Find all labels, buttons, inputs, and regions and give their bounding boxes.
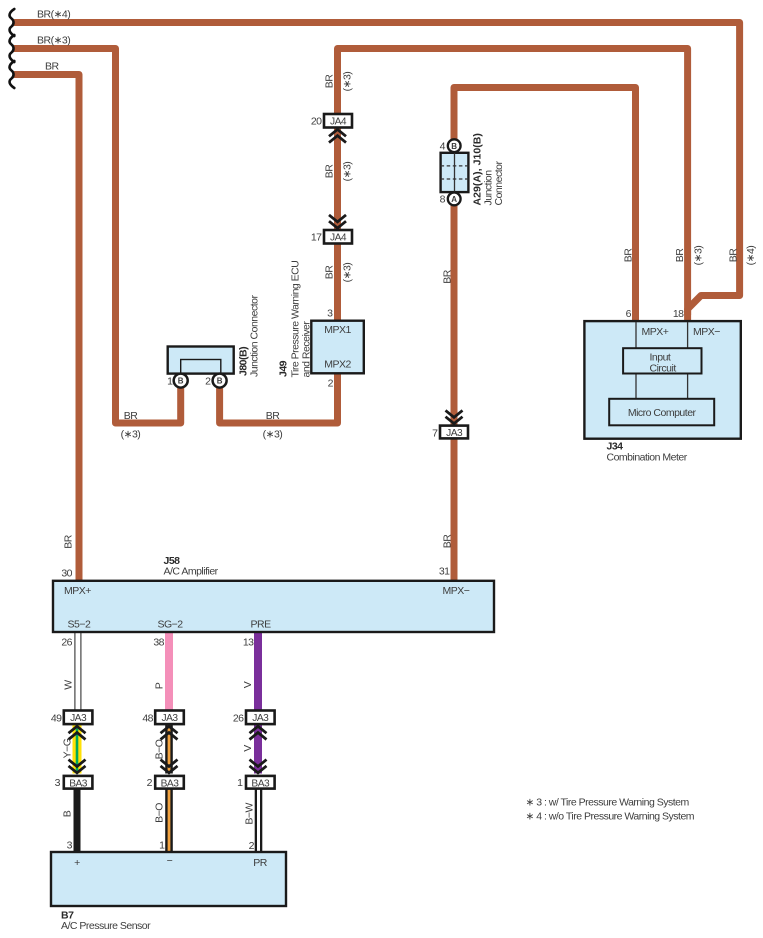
svg-text:3: 3 <box>327 308 333 320</box>
svg-text:A/C Pressure Sensor: A/C Pressure Sensor <box>61 920 151 932</box>
svg-text:−: − <box>167 855 173 867</box>
svg-text:Junction Connector: Junction Connector <box>249 295 261 377</box>
svg-text:MPX+: MPX+ <box>642 326 669 338</box>
svg-text:49: 49 <box>51 713 62 725</box>
svg-text:20: 20 <box>311 116 322 128</box>
svg-text:S5−2: S5−2 <box>68 619 91 631</box>
svg-text:7: 7 <box>432 428 438 440</box>
svg-text:J49: J49 <box>278 360 290 377</box>
svg-text:48: 48 <box>142 713 153 725</box>
svg-text:∗ 4 : w/o Tire Pressure Warnin: ∗ 4 : w/o Tire Pressure Warning System <box>526 811 695 823</box>
svg-text:(∗3): (∗3) <box>693 246 705 266</box>
svg-text:6: 6 <box>626 308 632 320</box>
svg-text:(∗3): (∗3) <box>263 429 283 441</box>
svg-text:26: 26 <box>61 637 72 649</box>
svg-text:BA3: BA3 <box>251 778 270 789</box>
svg-text:BR: BR <box>728 248 740 263</box>
svg-text:MPX+: MPX+ <box>64 585 91 597</box>
svg-text:38: 38 <box>153 637 164 649</box>
svg-text:BR: BR <box>324 74 336 89</box>
svg-text:2: 2 <box>249 840 255 852</box>
svg-text:30: 30 <box>61 568 72 580</box>
svg-text:Combination Meter: Combination Meter <box>607 452 688 464</box>
svg-text:26: 26 <box>233 713 244 725</box>
svg-text:B−O: B−O <box>154 739 166 759</box>
svg-text:(∗3): (∗3) <box>121 429 141 441</box>
svg-text:BR: BR <box>674 248 686 263</box>
svg-text:B−O: B−O <box>154 803 166 823</box>
svg-text:JA4: JA4 <box>330 117 347 128</box>
svg-text:B−W: B−W <box>244 802 256 824</box>
svg-text:JA3: JA3 <box>446 428 463 439</box>
svg-text:17: 17 <box>311 232 322 244</box>
svg-text:(∗3): (∗3) <box>342 72 354 92</box>
svg-text:V: V <box>242 681 254 688</box>
svg-text:B: B <box>178 377 184 386</box>
svg-text:4: 4 <box>440 141 446 153</box>
svg-text:BR(∗4): BR(∗4) <box>37 9 70 21</box>
svg-text:B: B <box>451 142 457 151</box>
svg-text:1: 1 <box>237 777 243 789</box>
svg-text:JA3: JA3 <box>161 713 178 724</box>
svg-text:2: 2 <box>147 777 153 789</box>
svg-text:MPX−: MPX− <box>443 585 470 597</box>
svg-text:BR: BR <box>124 410 139 422</box>
svg-text:BA3: BA3 <box>69 778 88 789</box>
svg-text:3: 3 <box>55 777 61 789</box>
svg-text:and Receiver: and Receiver <box>301 321 313 378</box>
svg-text:MPX−: MPX− <box>693 326 720 338</box>
svg-text:PR: PR <box>253 857 268 869</box>
svg-text:JA4: JA4 <box>330 233 347 244</box>
svg-text:(∗4): (∗4) <box>745 246 757 266</box>
svg-text:JA3: JA3 <box>70 713 87 724</box>
svg-text:1: 1 <box>167 376 173 388</box>
svg-text:MPX1: MPX1 <box>324 324 351 336</box>
svg-text:2: 2 <box>205 376 211 388</box>
svg-text:(∗3): (∗3) <box>342 263 354 283</box>
svg-text:BR: BR <box>324 164 336 179</box>
svg-text:B: B <box>217 377 223 386</box>
svg-text:31: 31 <box>439 566 450 578</box>
svg-text:Connector: Connector <box>493 161 505 206</box>
svg-text:BR: BR <box>442 534 454 549</box>
svg-text:JA3: JA3 <box>252 713 269 724</box>
svg-text:BA3: BA3 <box>161 778 180 789</box>
svg-text:3: 3 <box>67 840 73 852</box>
svg-text:A/C Amplifier: A/C Amplifier <box>164 566 219 578</box>
svg-text:BR: BR <box>63 534 75 549</box>
svg-text:BR: BR <box>442 269 454 284</box>
svg-text:A: A <box>451 195 457 204</box>
svg-text:MPX2: MPX2 <box>324 359 351 371</box>
svg-text:+: + <box>74 857 80 869</box>
svg-text:Circuit: Circuit <box>650 363 677 375</box>
svg-text:8: 8 <box>440 194 446 206</box>
svg-text:V: V <box>242 745 254 752</box>
svg-text:B: B <box>62 810 74 817</box>
svg-text:18: 18 <box>673 308 684 320</box>
svg-text:(∗3): (∗3) <box>342 162 354 182</box>
svg-text:BR: BR <box>623 248 635 263</box>
svg-text:BR: BR <box>324 265 336 280</box>
svg-text:BR: BR <box>45 61 60 73</box>
svg-text:1: 1 <box>159 840 165 852</box>
svg-text:Y−G: Y−G <box>62 738 74 758</box>
svg-text:13: 13 <box>243 637 254 649</box>
svg-text:BR: BR <box>266 410 281 422</box>
svg-text:Micro Computer: Micro Computer <box>628 407 697 419</box>
svg-text:2: 2 <box>328 378 334 390</box>
svg-text:BR(∗3): BR(∗3) <box>37 35 70 47</box>
svg-text:SG−2: SG−2 <box>158 619 184 631</box>
svg-text:W: W <box>63 680 75 690</box>
svg-text:P: P <box>154 682 166 689</box>
svg-text:∗ 3 : w/ Tire Pressure Warning: ∗ 3 : w/ Tire Pressure Warning System <box>526 797 690 809</box>
svg-text:PRE: PRE <box>251 619 272 631</box>
